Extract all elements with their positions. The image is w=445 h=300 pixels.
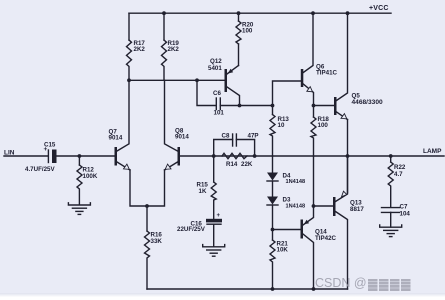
capacitor C8 (47P) top branch <box>214 133 259 157</box>
ground under C7 <box>380 225 402 237</box>
svg-text:C7: C7 <box>400 204 408 211</box>
svg-text:C6: C6 <box>213 90 221 97</box>
svg-text:104: 104 <box>400 211 411 218</box>
transistor Q12 (PNP 5401) <box>208 58 240 106</box>
svg-text:4.7UF/25V: 4.7UF/25V <box>25 166 55 173</box>
wire Q5 base <box>314 105 335 107</box>
resistor R17 <box>127 13 146 80</box>
svg-text:9014: 9014 <box>109 135 123 142</box>
wire Q8 base to feedback node <box>180 155 214 157</box>
svg-text:33K: 33K <box>151 238 163 245</box>
capacitor C15 (polar 4.7UF/25V) <box>25 142 57 174</box>
svg-text:1K: 1K <box>199 188 207 195</box>
wire R18 column through to Q13/Q14 <box>313 156 315 206</box>
node LAMP output label <box>423 148 442 155</box>
svg-text:22K: 22K <box>241 161 253 168</box>
svg-text:LAMP: LAMP <box>423 148 442 155</box>
svg-text:TIP42C: TIP42C <box>315 235 337 242</box>
svg-text:TIP41C: TIP41C <box>316 70 338 77</box>
wire Q6 base <box>273 81 301 106</box>
transistor Q7 (NPN 9014) <box>109 80 131 170</box>
wire C15 to Q7 base <box>57 155 115 157</box>
svg-text:100K: 100K <box>83 173 98 180</box>
diode D3 (1N4148) <box>267 197 305 230</box>
transistor Q8 (NPN 9014, mirrored) <box>165 80 190 170</box>
wire diode column top <box>272 156 274 173</box>
svg-text:101: 101 <box>214 110 225 117</box>
resistor R15 <box>197 156 217 219</box>
resistor R13 <box>270 106 289 157</box>
svg-text:22UF/25V: 22UF/25V <box>177 226 206 233</box>
capacitor C6 <box>213 90 240 117</box>
resistor R14 (22K) <box>222 153 253 168</box>
svg-text:R14: R14 <box>226 161 238 168</box>
svg-text:C8: C8 <box>222 133 230 140</box>
resistor R20 <box>236 13 254 65</box>
resistor R12 <box>77 156 98 205</box>
svg-text:8817: 8817 <box>350 206 364 213</box>
capacitor C7 (104) <box>382 204 411 228</box>
svg-text:1N4148: 1N4148 <box>286 179 306 185</box>
watermark CSDN <box>315 277 367 290</box>
svg-text:D3: D3 <box>283 197 291 204</box>
svg-text:2K2: 2K2 <box>168 46 180 53</box>
svg-text:10K: 10K <box>277 247 289 254</box>
wire Q14 base <box>273 229 301 231</box>
transistor Q14 (PNP TIP42C) <box>301 206 337 289</box>
svg-text:5401: 5401 <box>208 65 222 72</box>
ground under R12 <box>68 203 90 215</box>
wire emitter U of diff pair <box>130 170 165 206</box>
svg-text:+VCC: +VCC <box>369 5 389 12</box>
wire Q13 base <box>314 205 334 207</box>
svg-text:47P: 47P <box>248 133 259 140</box>
wire output line <box>214 155 444 157</box>
svg-text:100: 100 <box>318 122 329 129</box>
bottom white band <box>0 293 445 300</box>
resistor R21 <box>270 230 288 290</box>
wire bottom rail <box>147 288 348 290</box>
ground under C16 <box>203 245 225 257</box>
wire input line <box>4 155 48 157</box>
transistor Q5 (NPN 4468/3300) <box>334 13 383 119</box>
svg-text:9014: 9014 <box>175 134 189 141</box>
capacitor C16 (polar 22UF/25V) <box>177 213 222 247</box>
wire R16 drop <box>146 206 148 231</box>
svg-text:4.7: 4.7 <box>394 171 403 178</box>
wire collector node to Q6 base column <box>240 105 273 107</box>
svg-text:4468/3300: 4468/3300 <box>352 99 384 106</box>
transistor Q6 (NPN TIP41C) <box>301 13 338 105</box>
svg-text:C15: C15 <box>44 142 56 149</box>
svg-text:+: + <box>217 213 221 219</box>
resistor R18 <box>311 106 329 157</box>
node LIN input label <box>4 150 15 157</box>
resistor R19 <box>162 13 180 80</box>
node VCC label <box>369 5 389 12</box>
resistor R22 <box>388 156 406 207</box>
svg-text:Q12: Q12 <box>210 58 222 65</box>
resistor R16 <box>145 231 163 289</box>
svg-text:2K2: 2K2 <box>134 46 146 53</box>
wire C6 branch tap <box>197 80 216 105</box>
svg-text:R22: R22 <box>394 164 406 171</box>
svg-text:10: 10 <box>278 122 285 129</box>
wire Q12 base line from R17 node <box>129 79 225 81</box>
diode D4 (1N4148) <box>267 173 305 197</box>
transistor Q13 (8817) <box>333 156 364 289</box>
wire Q5 emitter to output and down to Q13 <box>347 120 349 193</box>
svg-text:100: 100 <box>242 28 253 35</box>
svg-text:1N4148: 1N4148 <box>286 204 306 210</box>
wire top VCC rail <box>129 12 391 14</box>
